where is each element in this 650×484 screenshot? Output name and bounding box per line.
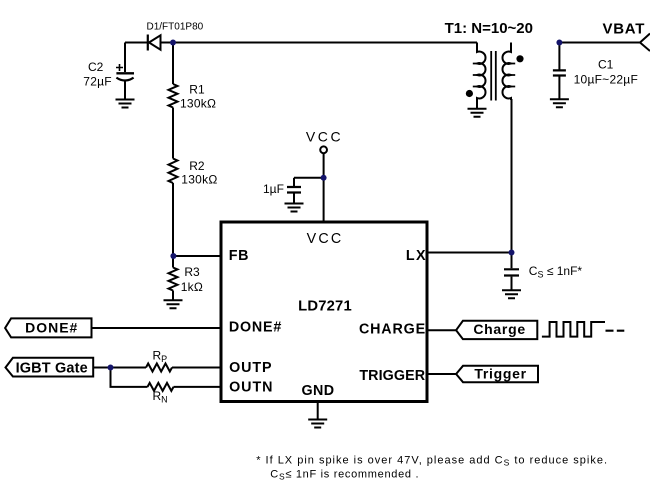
svg-text:CS≤ 1nF is recommended .: CS≤ 1nF is recommended . (270, 468, 419, 481)
svg-text:OUTN: OUTN (229, 379, 273, 395)
svg-text:RN: RN (153, 389, 168, 405)
svg-text:CS ≤ 1nF*: CS ≤ 1nF* (529, 264, 583, 280)
svg-text:T1: N=10~20: T1: N=10~20 (445, 20, 533, 37)
svg-text:Trigger: Trigger (474, 365, 526, 381)
svg-text:130kΩ: 130kΩ (180, 97, 216, 111)
svg-text:IGBT Gate: IGBT Gate (16, 360, 88, 376)
svg-text:CHARGE: CHARGE (359, 321, 426, 337)
svg-text:GND: GND (302, 383, 335, 399)
svg-text:OUTP: OUTP (229, 360, 272, 376)
svg-text:1kΩ: 1kΩ (181, 280, 203, 294)
svg-text:R3: R3 (184, 265, 200, 279)
svg-text:C1: C1 (598, 58, 614, 72)
svg-text:RP: RP (153, 348, 168, 364)
svg-text:* If LX pin spike is over 47V,: * If LX pin spike is over 47V, please ad… (256, 454, 608, 467)
svg-text:VCC: VCC (306, 129, 343, 145)
svg-text:D1/FT01P80: D1/FT01P80 (147, 21, 204, 32)
svg-text:72µF: 72µF (83, 74, 112, 88)
svg-text:10µF~22µF: 10µF~22µF (574, 72, 638, 86)
svg-text:LD7271: LD7271 (298, 298, 352, 314)
svg-text:1µF: 1µF (263, 182, 284, 196)
svg-text:DONE#: DONE# (25, 320, 78, 336)
svg-text:R1: R1 (189, 82, 205, 96)
svg-text:FB: FB (229, 248, 249, 264)
svg-text:DONE#: DONE# (229, 319, 282, 335)
svg-text:R2: R2 (189, 159, 205, 173)
svg-text:LX: LX (406, 248, 427, 264)
svg-text:130kΩ: 130kΩ (181, 173, 217, 187)
svg-text:TRIGGER: TRIGGER (359, 368, 425, 384)
svg-text:VBAT: VBAT (603, 21, 646, 38)
svg-text:C2: C2 (88, 60, 104, 74)
svg-text:VCC: VCC (307, 231, 344, 247)
svg-text:Charge: Charge (473, 321, 525, 337)
